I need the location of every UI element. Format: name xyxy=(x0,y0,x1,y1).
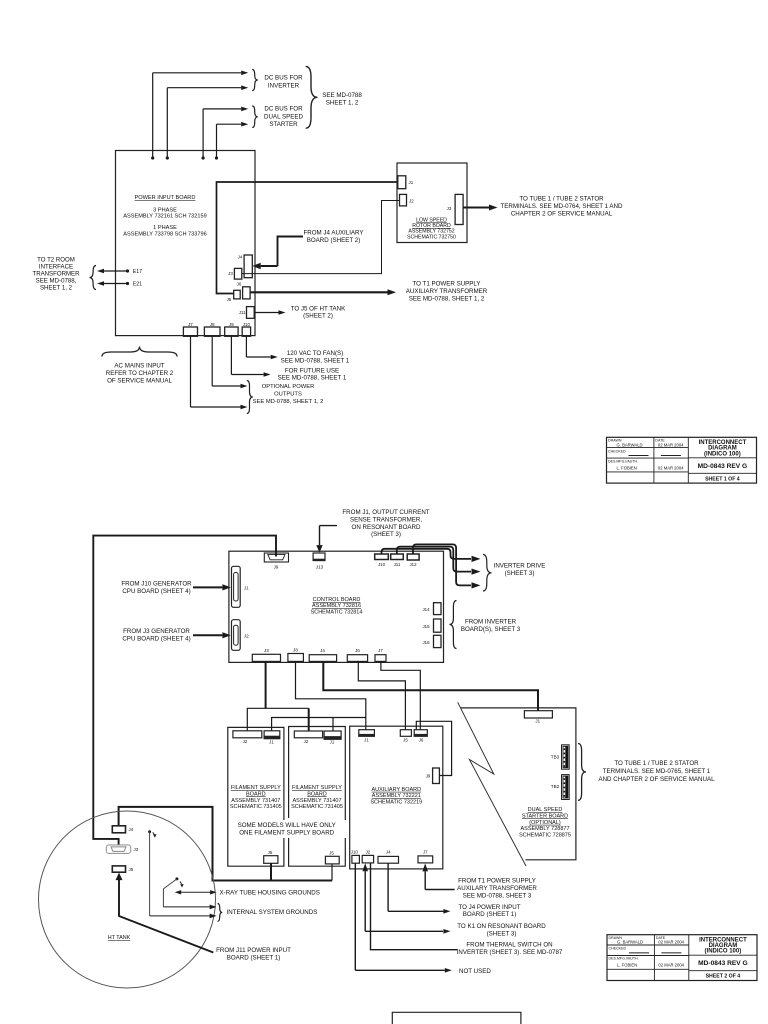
wire J9 for future use xyxy=(230,336,232,374)
svg-text:ASSEMBLY 731407: ASSEMBLY 731407 xyxy=(231,798,280,804)
wire control J3 to filament J2s xyxy=(265,661,267,708)
wire J12 to inverter drive arrow3 xyxy=(413,544,471,585)
pin dot 1 on power input board top xyxy=(151,156,154,159)
svg-text:POWER INPUT BOARD: POWER INPUT BOARD xyxy=(135,195,196,201)
wire arrow from E21 xyxy=(104,283,128,285)
wire from J4 auxiliary board into J4 xyxy=(278,237,304,267)
svg-text:TERMINALS. SEE MD-0765, SHEET: TERMINALS. SEE MD-0765, SHEET 1 xyxy=(603,768,711,775)
svg-text:NOT USED: NOT USED xyxy=(459,968,491,975)
connector J9 (control board) xyxy=(264,553,288,562)
svg-text:SCHEMATIC 731405: SCHEMATIC 731405 xyxy=(291,804,343,810)
wire aux J10 not used xyxy=(354,863,356,970)
pin dot 2 on power input board top xyxy=(166,156,169,159)
wire J11 to J5 of HT tank xyxy=(255,312,279,314)
svg-text:SCHEMATIC 732814: SCHEMATIC 732814 xyxy=(311,609,363,615)
wire aux J2 to K1 resonant board xyxy=(364,871,366,931)
svg-text:SHEET 1 OF 4: SHEET 1 OF 4 xyxy=(705,476,740,482)
svg-text:TO TUBE 1 / TUBE 2 STATOR: TO TUBE 1 / TUBE 2 STATOR xyxy=(614,760,699,767)
svg-text:TERMINALS. SEE MD-0764, SHEET: TERMINALS. SEE MD-0764, SHEET 1 AND xyxy=(501,203,623,210)
svg-text:SEE MD-0788,: SEE MD-0788, xyxy=(36,278,77,285)
svg-text:SEE MD-0788, SHEET 1, 2: SEE MD-0788, SHEET 1, 2 xyxy=(409,296,485,303)
svg-text:J7: J7 xyxy=(378,648,383,653)
svg-text:J4: J4 xyxy=(386,849,391,854)
svg-text:J9: J9 xyxy=(426,774,431,779)
svg-text:MD-0843 REV G: MD-0843 REV G xyxy=(698,960,747,967)
wire control J4 to dual speed J1 xyxy=(323,661,538,710)
wire from T1 transformer into aux J7 xyxy=(424,871,426,889)
wire power board J3 to rotor J2 xyxy=(242,201,400,274)
svg-text:SENSE TRANSFORMER,: SENSE TRANSFORMER, xyxy=(350,516,422,523)
wire control J9 to HT tank J3 xyxy=(93,536,276,845)
svg-text:CONTROL BOARD: CONTROL BOARD xyxy=(313,597,361,603)
wire pin1 to DC bus arrow xyxy=(152,73,154,158)
svg-text:J10: J10 xyxy=(351,849,359,854)
svg-text:INTERFACE: INTERFACE xyxy=(39,264,73,271)
svg-text:J1: J1 xyxy=(244,586,249,591)
svg-text:BOARD: BOARD xyxy=(246,791,266,797)
svg-text:J3: J3 xyxy=(134,847,139,852)
pin dot 3 on power input board top xyxy=(202,156,205,159)
connector J1 (rotor board) xyxy=(398,176,406,189)
svg-text:AND CHAPTER 2 OF SERVICE MANUA: AND CHAPTER 2 OF SERVICE MANUAL xyxy=(598,776,715,783)
svg-text:02 MAR 2004: 02 MAR 2004 xyxy=(658,963,684,968)
connector J6 (auxiliary board) xyxy=(414,730,427,737)
svg-text:TB2: TB2 xyxy=(551,784,560,789)
svg-text:J5: J5 xyxy=(268,850,273,855)
svg-text:J2: J2 xyxy=(304,739,309,744)
wire J10 to inverter drive arrow1 xyxy=(382,549,472,559)
wire into J13 xyxy=(320,525,338,527)
svg-text:(SHEET 3): (SHEET 3) xyxy=(487,930,517,937)
svg-text:J2: J2 xyxy=(409,199,414,204)
svg-text:J5: J5 xyxy=(129,867,134,872)
svg-text:ASSEMBLY 731407: ASSEMBLY 731407 xyxy=(292,798,341,804)
wire J3 rotor to tube stator xyxy=(463,206,489,208)
connector J2 (filament board 2) xyxy=(294,731,322,738)
svg-text:(SHEET 2): (SHEET 2) xyxy=(303,313,333,320)
svg-text:SEE MD-0788: SEE MD-0788 xyxy=(322,92,362,99)
wire thermal switch to aux J2 xyxy=(371,863,458,950)
svg-text:J9: J9 xyxy=(274,565,279,570)
svg-text:G. BARWALD: G. BARWALD xyxy=(617,940,643,945)
wire pin4 to DC bus arrow xyxy=(216,124,218,158)
svg-text:INVERTER (SHEET 3). SEE MD-078: INVERTER (SHEET 3). SEE MD-0787 xyxy=(457,949,563,956)
svg-text:L. FOBIEN: L. FOBIEN xyxy=(617,465,637,470)
svg-text:(INDICO 100): (INDICO 100) xyxy=(705,949,742,955)
svg-text:J1: J1 xyxy=(269,740,274,745)
svg-text:AUXILARY TRANSFORMER: AUXILARY TRANSFORMER xyxy=(457,885,537,892)
svg-text:FROM J3 GENERATOR: FROM J3 GENERATOR xyxy=(123,628,190,635)
svg-text:FOR FUTURE USE: FOR FUTURE USE xyxy=(285,367,339,374)
wire HT J4 to filament J5 ground bus xyxy=(119,807,332,881)
svg-text:OUTPUTS: OUTPUTS xyxy=(274,392,302,398)
svg-text:DUAL SPEED: DUAL SPEED xyxy=(264,113,304,120)
svg-text:DUAL SPEED: DUAL SPEED xyxy=(528,807,563,813)
brace to T2 room transformer xyxy=(90,266,97,290)
svg-text:ASSEMBLY 732221: ASSEMBLY 732221 xyxy=(372,793,421,799)
title block sheet 2 xyxy=(607,935,757,981)
svg-text:AUXILIARY TRANSFORMER: AUXILIARY TRANSFORMER xyxy=(406,288,488,295)
svg-text:J1: J1 xyxy=(330,740,335,745)
svg-text:INTERNAL SYSTEM GROUNDS: INTERNAL SYSTEM GROUNDS xyxy=(227,909,318,916)
connector J1 (filament board 2) xyxy=(324,731,341,739)
svg-text:J9: J9 xyxy=(229,322,234,327)
svg-text:J6: J6 xyxy=(419,738,424,743)
filament supply board 2 xyxy=(289,727,346,867)
dual speed board jagged edge xyxy=(458,702,526,866)
ground node near HT J4 xyxy=(148,830,151,833)
svg-text:J1: J1 xyxy=(364,738,369,743)
wire J10 to 120VAC fans xyxy=(245,336,247,357)
svg-text:(SHEET 3): (SHEET 3) xyxy=(371,531,401,538)
connector J2 (rotor board) xyxy=(400,194,407,206)
svg-text:ASSEMBLY 733798 SCH 733796: ASSEMBLY 733798 SCH 733796 xyxy=(123,231,206,237)
connector J10 (control board) xyxy=(375,554,389,560)
svg-text:1 PHASE: 1 PHASE xyxy=(153,225,177,231)
svg-text:J8: J8 xyxy=(293,648,298,653)
wire internal ground 1 xyxy=(163,879,177,907)
svg-text:J13: J13 xyxy=(316,565,324,570)
wire J8 optional power output 1 xyxy=(211,336,213,386)
connector J13 (control board) xyxy=(313,553,325,561)
wire control J6 to aux J5 xyxy=(358,661,405,729)
svg-text:CHECKED: CHECKED xyxy=(609,947,627,951)
svg-text:BOARD: BOARD xyxy=(307,791,327,797)
svg-text:J6: J6 xyxy=(237,282,242,287)
svg-text:J5: J5 xyxy=(329,850,334,855)
wire from J10 generator cpu into J1 xyxy=(193,586,222,588)
svg-text:L. FOBIEN: L. FOBIEN xyxy=(617,963,637,968)
svg-text:J7: J7 xyxy=(188,322,193,327)
svg-text:J2: J2 xyxy=(243,739,248,744)
svg-text:SOME MODELS WILL HAVE ONLY: SOME MODELS WILL HAVE ONLY xyxy=(238,822,336,829)
svg-text:FROM J4 AUXILIARY: FROM J4 AUXILIARY xyxy=(303,230,363,237)
svg-text:SCHEMATIC 732219: SCHEMATIC 732219 xyxy=(370,800,422,806)
svg-text:TO T1 POWER SUPPLY: TO T1 POWER SUPPLY xyxy=(412,281,480,288)
wire J6 to T1 power supply transformer xyxy=(250,291,388,293)
svg-text:SEE MD-0788, SHEET 1, 2: SEE MD-0788, SHEET 1, 2 xyxy=(253,399,324,405)
svg-text:02 MAR 2004: 02 MAR 2004 xyxy=(658,465,684,470)
svg-text:E17: E17 xyxy=(133,269,142,275)
wire internal ground 2 xyxy=(149,832,151,916)
svg-text:(SHEET 3): (SHEET 3) xyxy=(505,570,535,577)
svg-text:J15: J15 xyxy=(422,624,430,629)
svg-text:ON RESONANT BOARD: ON RESONANT BOARD xyxy=(352,524,422,531)
svg-text:STARTER: STARTER xyxy=(269,121,298,128)
connector J4 (HT tank) xyxy=(112,826,125,833)
svg-text:FROM J11 POWER INPUT: FROM J11 POWER INPUT xyxy=(216,947,291,954)
svg-text:J5: J5 xyxy=(403,738,408,743)
wire from J3 generator cpu into J2 xyxy=(193,634,222,636)
connector J1 (control board) xyxy=(232,566,241,607)
svg-text:SHEET 2 OF 4: SHEET 2 OF 4 xyxy=(706,974,741,980)
wire J11 to inverter drive arrow2 xyxy=(397,547,471,572)
svg-text:AC MAINS INPUT: AC MAINS INPUT xyxy=(114,363,164,370)
svg-text:DC BUS FOR: DC BUS FOR xyxy=(264,106,303,113)
node E17 xyxy=(126,269,129,272)
brace DC bus for inverter xyxy=(252,70,258,91)
svg-text:J2: J2 xyxy=(366,849,371,854)
brace DC bus for dual speed starter xyxy=(252,106,258,128)
svg-text:J14: J14 xyxy=(422,607,430,612)
svg-text:J11: J11 xyxy=(394,562,401,567)
svg-text:J8: J8 xyxy=(210,322,215,327)
svg-text:FROM J1, OUTPUT CURRENT: FROM J1, OUTPUT CURRENT xyxy=(342,509,429,516)
svg-text:BOARD (SHEET 2): BOARD (SHEET 2) xyxy=(307,237,361,244)
brace inverter drive xyxy=(483,555,492,592)
svg-text:OF SERVICE MANUAL: OF SERVICE MANUAL xyxy=(107,377,172,384)
svg-text:X-RAY TUBE HOUSING GROUNDS: X-RAY TUBE HOUSING GROUNDS xyxy=(220,890,320,897)
svg-text:SCHEMATIC 731405: SCHEMATIC 731405 xyxy=(230,804,282,810)
svg-text:BOARD(S), SHEET 3: BOARD(S), SHEET 3 xyxy=(461,626,521,633)
svg-text:J3: J3 xyxy=(264,648,269,653)
svg-text:CHAPTER 2 OF SERVICE MANUAL: CHAPTER 2 OF SERVICE MANUAL xyxy=(511,210,613,217)
wire rotor J1 to power board J5 xyxy=(217,182,398,294)
brace optional power outputs xyxy=(247,381,253,414)
sheet 3 partial board xyxy=(392,1012,521,1024)
low speed rotor board xyxy=(397,163,467,243)
svg-text:TRANSFORMER: TRANSFORMER xyxy=(32,271,80,278)
svg-text:J2: J2 xyxy=(244,634,249,639)
svg-text:TO T2 ROOM: TO T2 ROOM xyxy=(37,257,75,264)
svg-text:TO TUBE 1 / TUBE 2 STATOR: TO TUBE 1 / TUBE 2 STATOR xyxy=(519,196,604,203)
svg-text:DES.MFG.I/AUTH.: DES.MFG.I/AUTH. xyxy=(609,957,639,961)
brace AC mains input xyxy=(102,347,177,357)
svg-text:DES.MFG.I/AUTH.: DES.MFG.I/AUTH. xyxy=(608,459,638,463)
svg-text:CHECKED: CHECKED xyxy=(608,449,626,453)
connector J3 (HT tank) xyxy=(106,845,130,854)
wire aux J9 loop to J6 xyxy=(416,721,451,775)
svg-text:SEE MD-0788, SHEET 1: SEE MD-0788, SHEET 1 xyxy=(278,375,347,382)
connector J11 (control board) xyxy=(391,554,404,560)
svg-text:J12: J12 xyxy=(409,562,417,567)
svg-text:INVERTER: INVERTER xyxy=(268,82,300,89)
svg-text:ASSEMBLY 732816: ASSEMBLY 732816 xyxy=(312,603,361,609)
svg-text:J4: J4 xyxy=(320,648,325,653)
svg-text:CPU BOARD (SHEET 4): CPU BOARD (SHEET 4) xyxy=(122,588,190,595)
svg-text:J11: J11 xyxy=(239,310,246,315)
svg-text:ONE FILAMENT SUPPLY BOARD: ONE FILAMENT SUPPLY BOARD xyxy=(239,829,334,836)
wire pin3 to DC bus arrow xyxy=(202,109,204,158)
svg-text:J5: J5 xyxy=(227,297,232,302)
svg-text:J3: J3 xyxy=(447,206,452,211)
svg-text:FROM J10 GENERATOR: FROM J10 GENERATOR xyxy=(121,581,192,588)
svg-text:SEE MD-0788, SHEET 1: SEE MD-0788, SHEET 1 xyxy=(281,357,350,364)
brace internal system grounds xyxy=(218,904,223,922)
auxiliary board xyxy=(350,726,443,869)
node E21 xyxy=(126,282,129,285)
svg-text:HT TANK: HT TANK xyxy=(108,935,131,941)
wire control J8 to aux J1 and filament J1s xyxy=(296,661,366,729)
svg-text:(OPTIONAL): (OPTIONAL) xyxy=(529,820,561,826)
svg-text:J6: J6 xyxy=(355,648,360,653)
brace from inverter boards xyxy=(450,601,457,649)
svg-text:J16: J16 xyxy=(422,640,430,645)
svg-text:FROM T1 POWER SUPPLY: FROM T1 POWER SUPPLY xyxy=(458,878,536,885)
connector J5 (HT tank) xyxy=(112,866,125,872)
svg-text:SCHEMATIC 732750: SCHEMATIC 732750 xyxy=(407,234,456,240)
svg-text:02 MAR 2004: 02 MAR 2004 xyxy=(658,940,684,945)
connector J1 (auxiliary board) xyxy=(359,730,375,737)
svg-text:FILAMENT SUPPLY: FILAMENT SUPPLY xyxy=(292,785,342,791)
ground node x-ray xyxy=(175,877,178,880)
svg-text:FROM THERMAL SWITCH ON: FROM THERMAL SWITCH ON xyxy=(466,942,552,949)
svg-text:TO J5 OF HT TANK: TO J5 OF HT TANK xyxy=(291,305,346,312)
brace to tube stator terminals (sheet2) xyxy=(578,744,586,801)
svg-text:SEE MD-0788, SHEET 3: SEE MD-0788, SHEET 3 xyxy=(463,892,532,899)
connector J2 (control board) xyxy=(232,620,241,651)
wire pin2 to DC bus arrow xyxy=(166,88,168,158)
svg-text:TO K1 ON RESONANT BOARD: TO K1 ON RESONANT BOARD xyxy=(457,923,546,930)
svg-text:FILAMENT SUPPLY: FILAMENT SUPPLY xyxy=(231,785,281,791)
svg-text:J7: J7 xyxy=(423,849,428,854)
title block sheet 1 xyxy=(607,437,757,483)
connector J2 (filament board 1) xyxy=(233,731,262,738)
filament supply board 1 xyxy=(228,727,284,866)
svg-text:REFER TO CHAPTER 2: REFER TO CHAPTER 2 xyxy=(106,370,174,377)
svg-text:J1: J1 xyxy=(409,180,414,185)
svg-text:AUXILIARY BOARD: AUXILIARY BOARD xyxy=(371,787,421,793)
connector J12 (control board) xyxy=(407,554,419,560)
connector J1 (filament board 1) xyxy=(264,731,280,739)
svg-text:J10: J10 xyxy=(243,322,251,327)
connector J5 (auxiliary board) xyxy=(400,730,411,737)
svg-text:J10: J10 xyxy=(378,562,386,567)
svg-text:TO J4 POWER INPUT: TO J4 POWER INPUT xyxy=(458,904,520,911)
svg-text:BOARD (SHEET 1): BOARD (SHEET 1) xyxy=(227,954,281,961)
big brace SEE MD-0788 xyxy=(306,67,318,129)
svg-text:J4: J4 xyxy=(129,827,134,832)
svg-text:G. BARWALD: G. BARWALD xyxy=(617,442,643,447)
svg-text:J1: J1 xyxy=(535,719,540,724)
svg-text:DC BUS FOR: DC BUS FOR xyxy=(264,75,303,82)
svg-text:(INDICO 100): (INDICO 100) xyxy=(704,451,741,457)
svg-text:SCHEMATIC 728875: SCHEMATIC 728875 xyxy=(519,833,571,839)
svg-text:SHEET 1, 2: SHEET 1, 2 xyxy=(326,100,359,107)
svg-text:J4: J4 xyxy=(238,255,243,260)
wire control J7 to aux J6 xyxy=(381,661,420,729)
svg-text:02 MAR 2004: 02 MAR 2004 xyxy=(658,442,684,447)
svg-text:FROM INVERTER: FROM INVERTER xyxy=(465,619,517,626)
wire from J11 power input into HT J5 xyxy=(116,873,123,881)
svg-text:3 PHASE: 3 PHASE xyxy=(153,207,177,213)
connector J1 (dual speed board) xyxy=(524,711,552,718)
svg-text:STARTER BOARD: STARTER BOARD xyxy=(522,813,568,819)
svg-text:J3: J3 xyxy=(228,271,233,276)
svg-text:TB3: TB3 xyxy=(551,754,560,759)
control board xyxy=(229,551,444,662)
svg-text:OPTIONAL POWER: OPTIONAL POWER xyxy=(262,384,315,390)
svg-text:E21: E21 xyxy=(133,282,142,288)
svg-text:ASSEMBLY 732161 SCH 732159: ASSEMBLY 732161 SCH 732159 xyxy=(123,214,206,220)
wire arrow from E17 xyxy=(104,270,128,272)
svg-text:SHEET 1, 2: SHEET 1, 2 xyxy=(40,285,73,292)
dual speed starter board outline xyxy=(461,708,576,860)
power input board xyxy=(116,151,256,336)
svg-text:ASSEMBLY 728877: ASSEMBLY 728877 xyxy=(520,826,569,832)
pin dot 4 on power input board top xyxy=(215,156,218,159)
wire J7 optional power output 2 xyxy=(190,336,192,407)
svg-text:120 VAC TO FAN(S): 120 VAC TO FAN(S) xyxy=(287,350,343,357)
svg-text:BOARD (SHEET 1): BOARD (SHEET 1) xyxy=(463,911,517,918)
HT tank circle xyxy=(39,811,216,988)
svg-text:INVERTER DRIVE: INVERTER DRIVE xyxy=(494,563,546,570)
wire x-ray tube housing grounds xyxy=(175,890,182,894)
wire aux J4 to J4 power input board xyxy=(387,863,389,911)
svg-text:MD-0843 REV G: MD-0843 REV G xyxy=(698,463,747,470)
svg-text:CPU BOARD (SHEET 4): CPU BOARD (SHEET 4) xyxy=(122,635,190,642)
